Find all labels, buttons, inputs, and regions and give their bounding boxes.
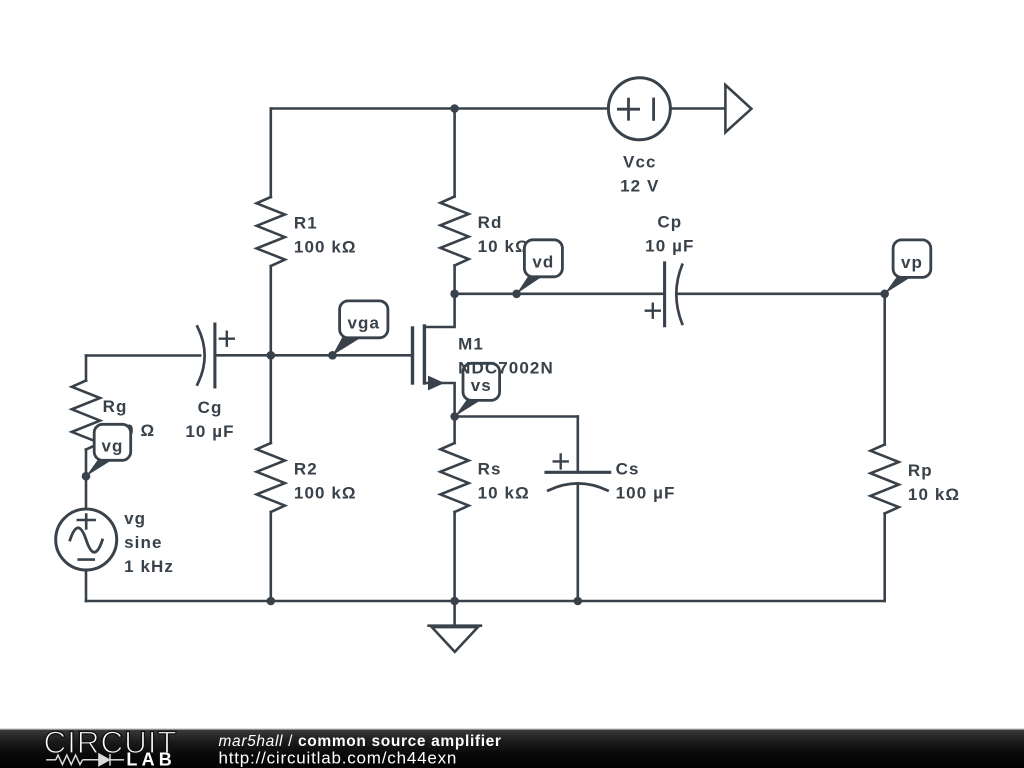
flag vg tail [86,459,113,476]
vg sine wave [70,528,102,552]
svg-text:10 µF: 10 µF [185,422,234,441]
Vcc bar [652,99,655,119]
wire gate rail left segment [86,354,200,357]
node dot bottom R2 [267,597,276,606]
transistor M1 gate bar [411,328,414,383]
svg-text:vg: vg [124,509,146,528]
capacitor Cp straight plate [663,263,666,326]
svg-text:Cp: Cp [657,213,682,232]
flag vs tail [455,399,482,416]
flag vga [340,301,388,338]
svg-text:12 V: 12 V [620,177,659,196]
svg-text:Cg: Cg [198,398,223,417]
wire Vcc to power flag [671,107,726,110]
resistor R2 [257,443,285,512]
node dot bottom Rs [450,597,459,606]
wire R1 top lead [269,109,272,198]
flag vd tail [517,276,544,294]
wire R2 top lead [269,355,272,443]
capacitor Cs straight plate [546,471,610,474]
transistor M1 channel bar [423,326,426,383]
node dot vd rail left [450,290,459,299]
Cp plus sign [646,304,660,318]
flag vp [893,240,931,278]
power flag (triangle) [725,85,751,132]
svg-text:10 kΩ: 10 kΩ [908,485,960,504]
node dot gate rail R1 [267,351,276,360]
wire Rd bottom lead [453,266,456,294]
svg-text:10 kΩ: 10 kΩ [478,237,530,256]
transistor M1 drain lead [424,294,454,327]
svg-text:100 kΩ: 100 kΩ [294,484,357,503]
svg-text:mar5hall / common source ampli: mar5hall / common source amplifier [219,733,502,750]
wire ground stub [453,601,456,626]
svg-text:Vcc: Vcc [623,153,657,172]
node dot vd [512,290,521,299]
node dot bottom Cs [574,597,583,606]
voltage source vg circle [56,509,117,570]
transistor M1 source arrow [428,376,445,391]
svg-text:10 kΩ: 10 kΩ [478,484,530,503]
svg-text:Rd: Rd [478,213,503,232]
wire Cp to vp [677,292,884,295]
vg plus sign [78,515,95,529]
svg-text:NDC7002N: NDC7002N [458,359,554,378]
svg-text:vd: vd [532,253,554,272]
capacitor Cs curved plate [548,483,607,490]
capacitor Cg straight plate [213,324,216,387]
svg-text:Rg: Rg [103,397,128,416]
svg-text:100 µF: 100 µF [616,484,676,503]
svg-text:vga: vga [348,314,381,333]
capacitor Cg curved plate [197,327,204,385]
Cg plus sign [220,332,234,346]
svg-text:Rp: Rp [908,461,933,480]
ground symbol [429,624,481,627]
wire gate rail right segment [216,354,412,357]
resistor Rs [440,443,468,512]
resistor R1 [257,197,285,266]
svg-text:http://circuitlab.com/ch44exn: http://circuitlab.com/ch44exn [219,749,458,768]
node dot vga [328,351,337,360]
CircuitLab logo squiggle [46,754,124,766]
wire R2 bottom lead [269,512,272,601]
svg-text:100 kΩ: 100 kΩ [294,238,357,257]
svg-text:LAB: LAB [126,750,176,768]
transistor M1 source lead [424,383,454,417]
wire Rg top lead [85,356,88,381]
wire Cs bottom lead [576,484,579,601]
svg-text:vp: vp [901,253,923,272]
wire top rail left of Vcc [271,107,608,110]
svg-text:Rs: Rs [478,460,502,479]
svg-text:1 kHz: 1 kHz [124,557,174,576]
voltage source V1 Vcc circle [608,78,670,140]
wire vg source bottom lead [85,570,88,601]
wire drain rail y=294 [455,292,663,295]
svg-text:R1: R1 [294,214,318,233]
node dot vp [880,290,889,299]
flag vg [94,424,131,460]
flag vd [524,240,562,277]
wire Rd top lead [453,109,456,197]
node dot vs [450,412,459,421]
svg-text:vg: vg [101,437,123,456]
svg-text:10 µF: 10 µF [645,237,694,256]
svg-text:M1: M1 [458,335,484,354]
wire Rp top lead [883,294,886,445]
wire Rg bottom lead [85,450,88,477]
resistor Rp [871,445,899,514]
svg-text:vs: vs [471,376,492,395]
capacitor Cp curved plate [676,265,682,324]
wire Rs bottom lead [453,512,456,601]
flag vga tail [333,337,363,355]
wire R1 bottom lead [269,266,272,355]
resistor Rd [440,197,468,266]
svg-text:R2: R2 [294,460,318,479]
wire Cs top lead [576,417,579,473]
resistor Rg [72,381,100,450]
wire bottom rail [86,600,885,603]
vg minus sign [79,558,94,561]
wire Rs top lead [453,417,456,444]
wire vs to Cs [455,415,578,418]
flag vs [463,363,500,400]
wire vg node to source [85,476,88,509]
node dot top junction [450,104,459,113]
flag vp tail [885,276,912,293]
Cs plus sign [554,454,568,468]
svg-text:sine: sine [124,533,162,552]
Vcc plus sign [618,99,638,119]
svg-text:Cs: Cs [616,460,640,479]
wire Rp bottom lead [883,514,886,602]
node dot vg [82,472,91,481]
